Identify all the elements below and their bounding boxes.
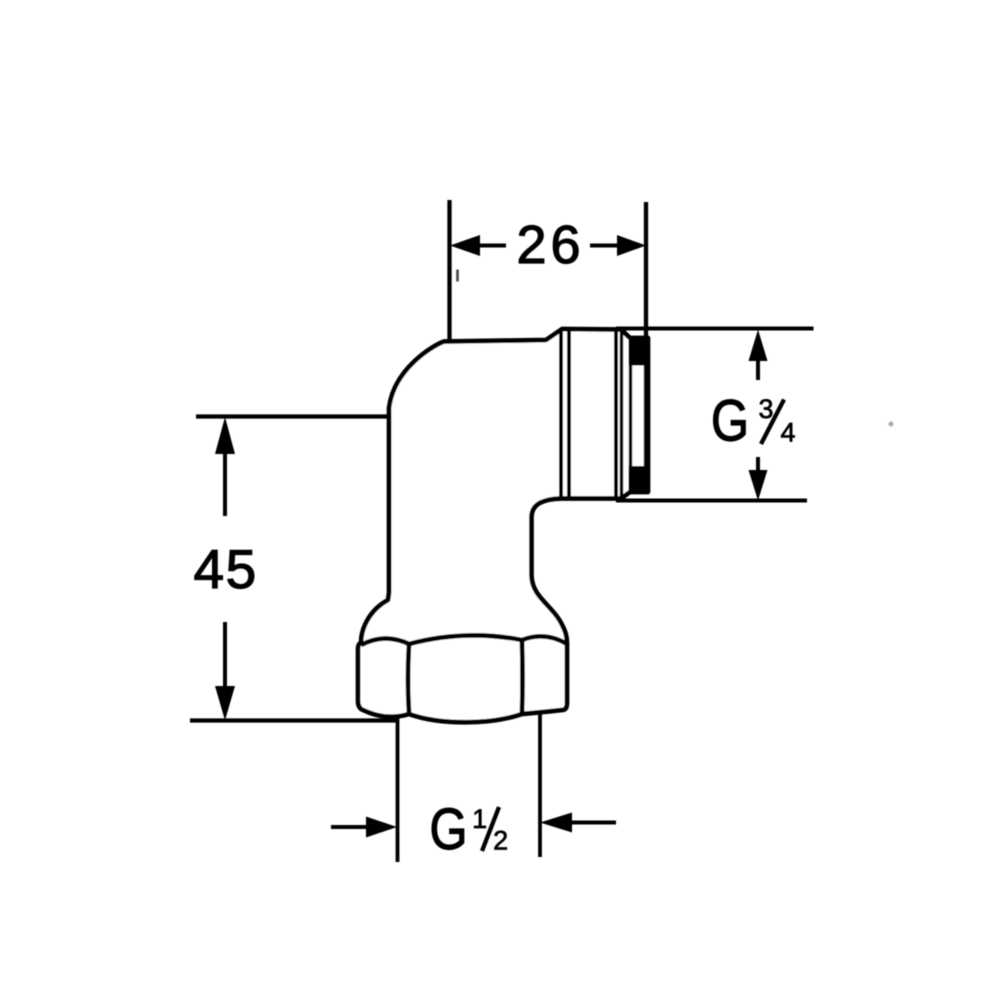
svg-text:G: G	[711, 389, 749, 454]
collar groove left line	[559, 331, 563, 497]
dim G3/4 up arrow	[749, 330, 768, 362]
dim G3/4 down arrow	[749, 470, 768, 501]
dim 45 down arrow	[215, 686, 235, 721]
svg-text:2: 2	[493, 826, 508, 856]
seal band bottom	[629, 466, 649, 493]
cap inner left line	[620, 331, 623, 497]
elbow fitting body outline	[358, 329, 648, 722]
dim 26 left arrow	[450, 235, 480, 256]
hex nut center face top edge	[409, 635, 522, 644]
hex nut left flank line	[408, 644, 409, 713]
dim 26 left extension line	[447, 200, 451, 339]
faint scan dot	[889, 422, 894, 427]
hex nut right flank line	[520, 640, 525, 714]
dim G1/2 left arrow	[331, 825, 368, 829]
seal band top	[629, 337, 649, 366]
svg-text:4: 4	[780, 418, 795, 448]
dim 45 top extension line	[196, 414, 389, 418]
bore line left	[629, 365, 632, 466]
thread cylinder right edge	[614, 330, 618, 498]
stray scan tick mark	[456, 270, 459, 282]
svg-text:45: 45	[194, 538, 258, 600]
svg-text:1: 1	[472, 804, 487, 834]
bottom pipe left line / G1/2 extension	[396, 716, 400, 862]
dim 26 right arrow	[617, 235, 646, 256]
bore line right	[644, 365, 647, 466]
collar groove right line	[567, 331, 571, 497]
dim G3/4 bottom extension line	[616, 499, 807, 503]
dim 26 right extension line	[644, 202, 648, 337]
svg-text:G: G	[430, 797, 468, 862]
dim G1/2 right arrow	[540, 813, 572, 833]
bottom pipe right line / G1/2 extension	[538, 713, 542, 857]
dim 45 bottom extension line	[190, 718, 398, 722]
dim G3/4 top extension line	[616, 327, 814, 331]
svg-text:26: 26	[517, 215, 585, 275]
dim 45 up arrow	[215, 417, 235, 454]
hex nut right face top edge	[522, 636, 567, 644]
hex nut left face top edge	[361, 638, 409, 645]
